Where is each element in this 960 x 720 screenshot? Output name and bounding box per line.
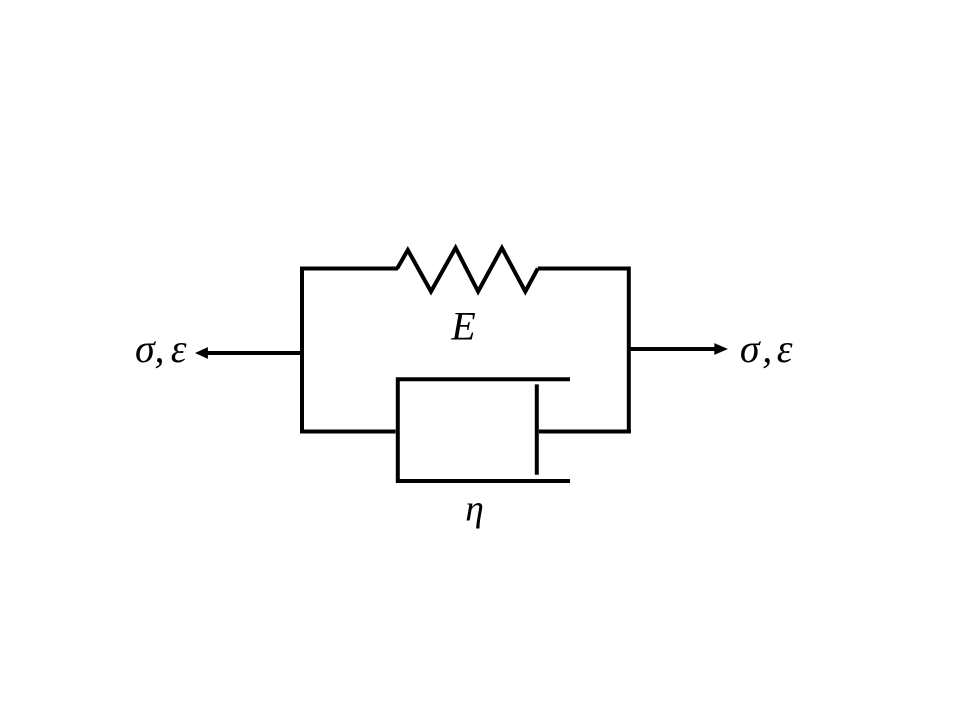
svg-text:η: η <box>465 489 484 530</box>
svg-text:σ,ε: σ,ε <box>135 326 187 371</box>
dashpot cylinder <box>398 379 570 481</box>
svg-text:E: E <box>450 303 475 348</box>
dashpot piston <box>535 384 539 474</box>
wire left branch <box>302 269 398 432</box>
wire piston rod <box>539 430 631 434</box>
wire top-right <box>538 267 629 271</box>
left arrow shaft <box>208 351 303 355</box>
wire right vertical <box>627 267 631 434</box>
spring E <box>397 248 538 292</box>
right arrow shaft <box>629 347 715 351</box>
svg-text:σ,ε: σ,ε <box>740 326 793 371</box>
right arrowhead <box>714 343 728 355</box>
left arrowhead <box>195 347 208 359</box>
